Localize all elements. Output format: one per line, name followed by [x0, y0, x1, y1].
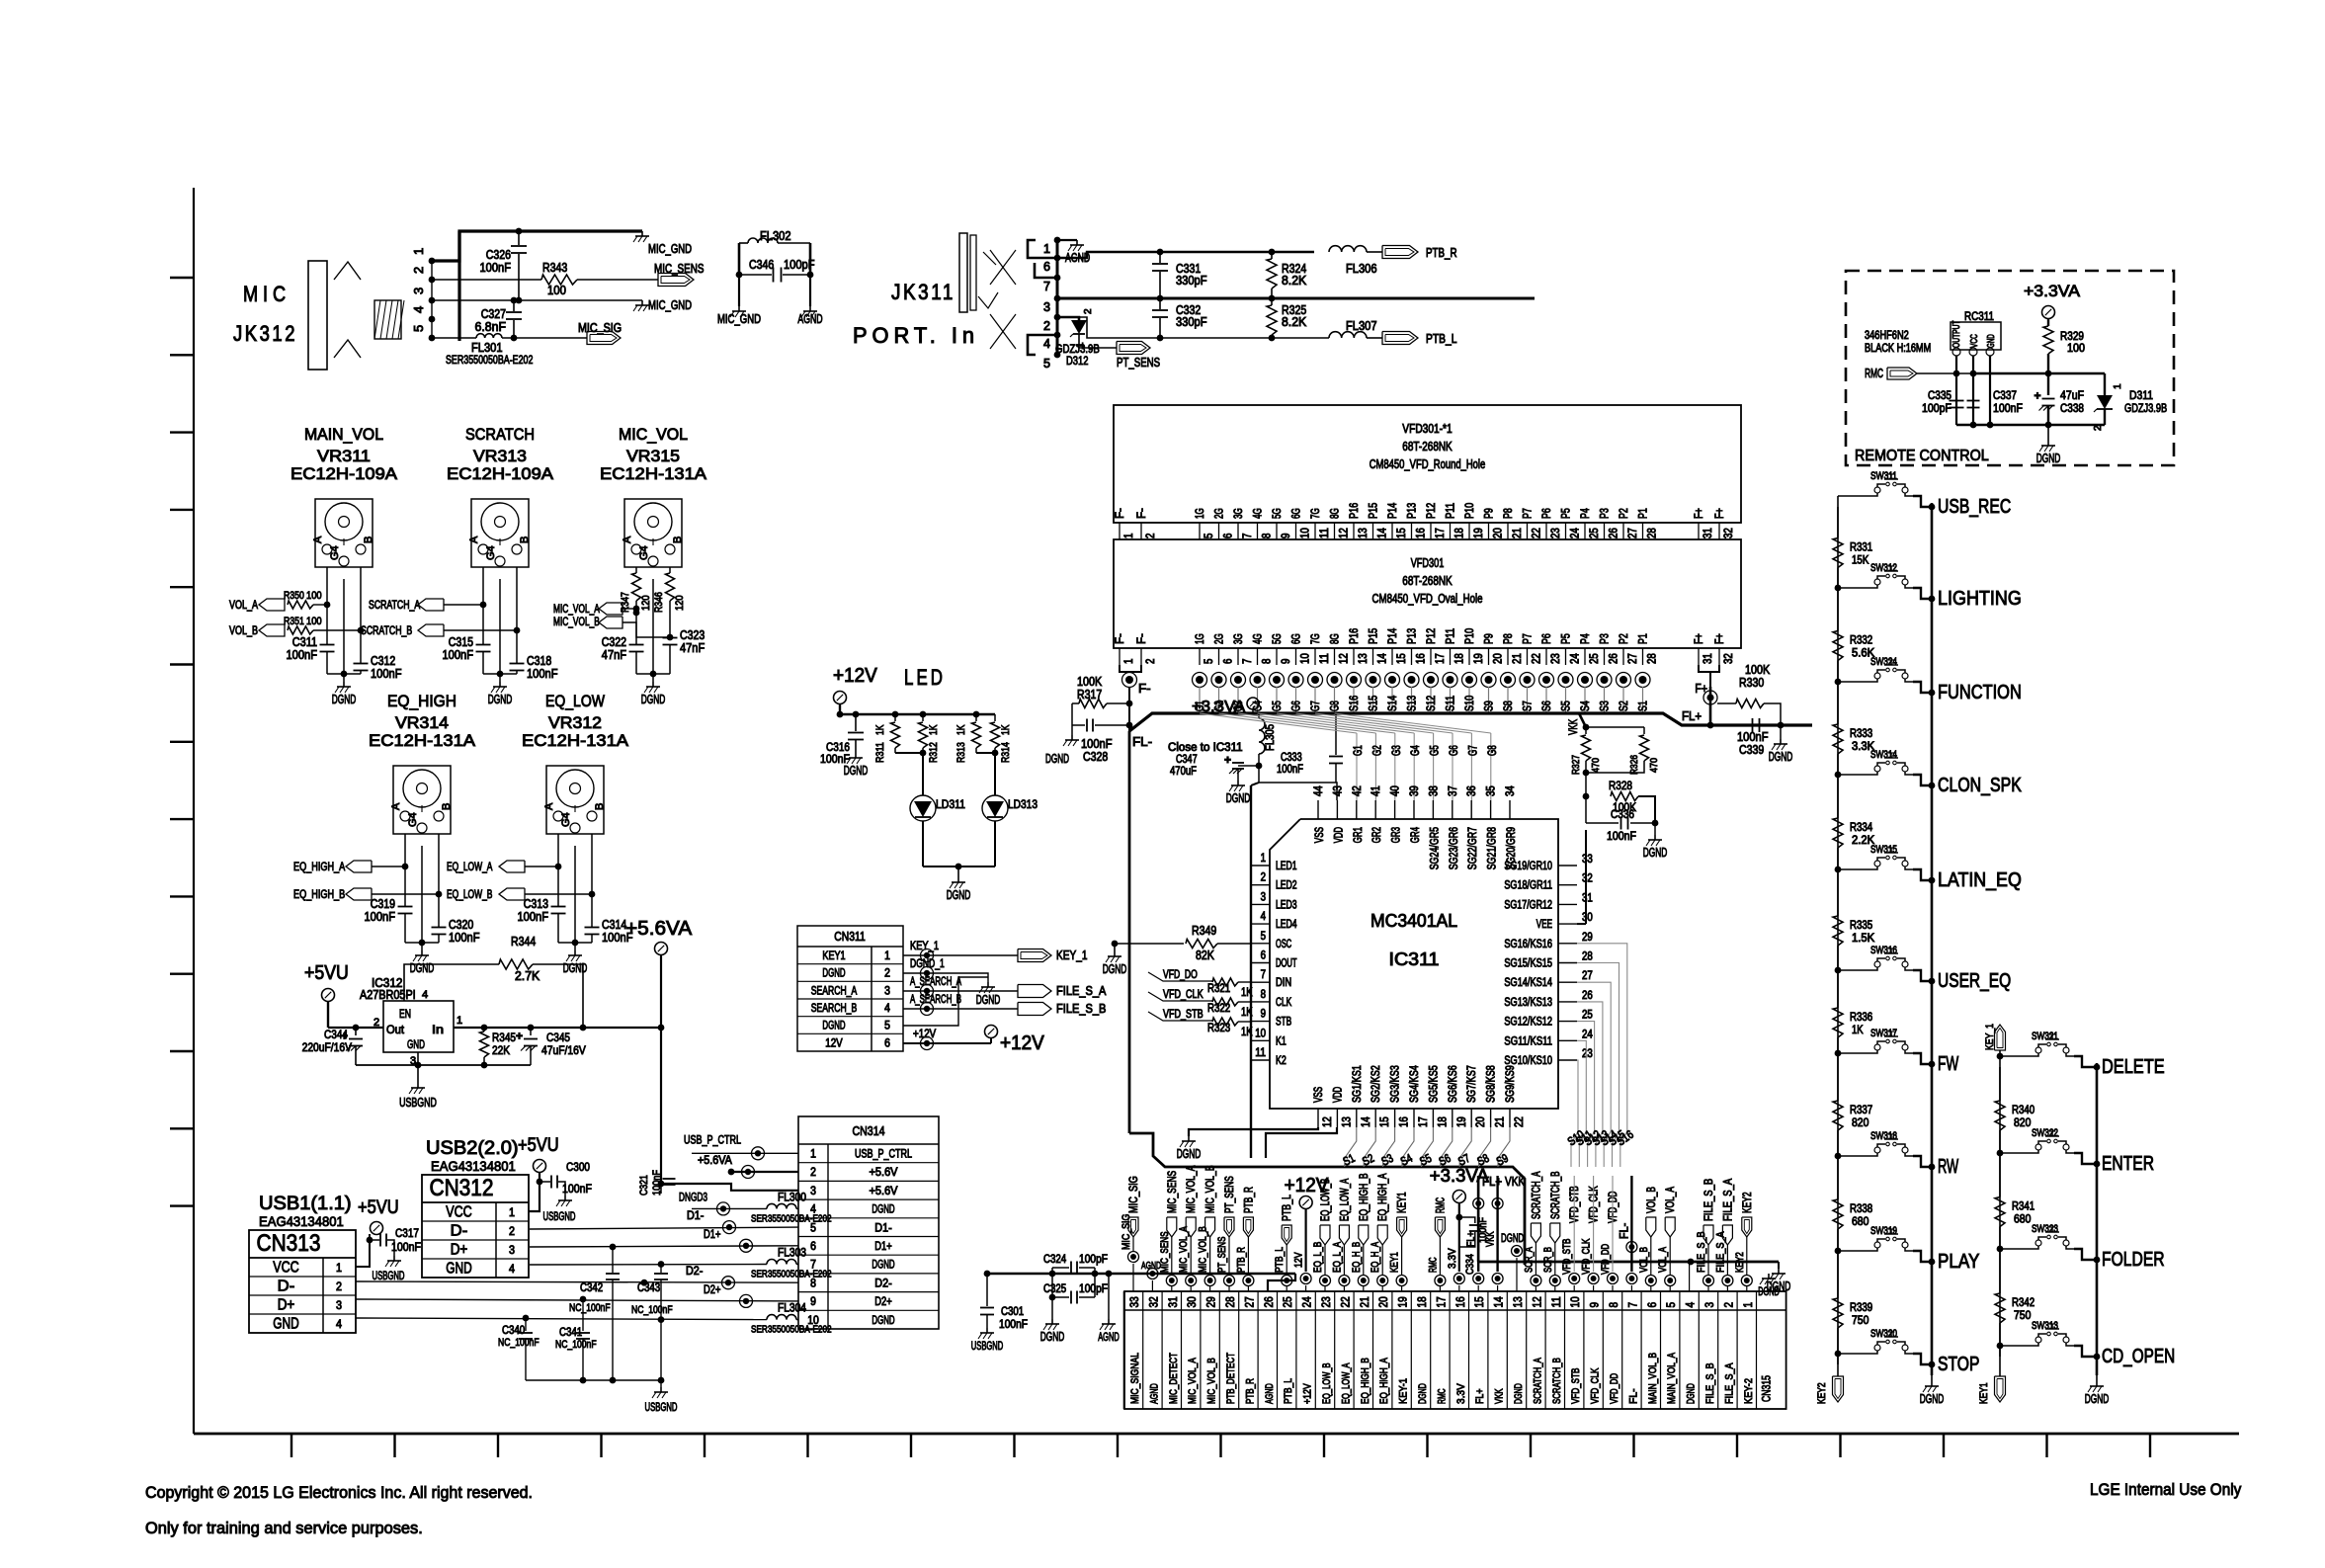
svg-text:28: 28 [1223, 1296, 1237, 1307]
ferrite bead FL300 [767, 1203, 796, 1208]
svg-text:SG15/KS15: SG15/KS15 [1504, 958, 1552, 970]
REMOTE CONTROL dashed box [1846, 271, 2174, 465]
capacitor C322 [629, 644, 644, 646]
svg-text:15: 15 [1472, 1296, 1486, 1307]
svg-text:16: 16 [1416, 653, 1428, 664]
svg-text:DGND: DGND [2085, 1392, 2110, 1406]
svg-text:G4: G4 [638, 545, 650, 560]
svg-text:P12: P12 [1426, 628, 1438, 644]
svg-text:VEE: VEE [1536, 919, 1552, 931]
capacitor C318 [510, 663, 525, 665]
svg-text:G3: G3 [1391, 745, 1403, 756]
capacitor C326 [518, 231, 520, 245]
wire pin3 to mid gnd [459, 299, 642, 301]
svg-text:+5.6V: +5.6V [870, 1186, 898, 1197]
resistor R333 3.3K [1833, 724, 1843, 754]
svg-text:1: 1 [2113, 383, 2123, 389]
key ladder buses [1837, 496, 1839, 1373]
svg-text:FL-: FL- [1619, 1223, 1630, 1239]
svg-text:K2: K2 [1276, 1055, 1287, 1067]
resistor R331 15K [1833, 538, 1843, 568]
svg-text:27: 27 [1242, 1296, 1256, 1307]
svg-text:5: 5 [1204, 534, 1215, 538]
svg-text:VCC: VCC [1969, 334, 1980, 348]
svg-text:VOL_B: VOL_B [229, 625, 258, 637]
svg-text:68T-268NK: 68T-268NK [1402, 440, 1453, 454]
wire D2+ [356, 1299, 798, 1301]
pin 7 [1054, 275, 1061, 282]
wire EN pullup R344 [404, 964, 499, 1001]
svg-text:100nF: 100nF [391, 1240, 421, 1254]
svg-text:100: 100 [306, 616, 322, 627]
svg-text:KEY1: KEY1 [1397, 1192, 1409, 1213]
wire F+ down to rail [1709, 687, 1712, 725]
svg-text:MIC_VOL_B: MIC_VOL_B [1198, 1226, 1209, 1273]
svg-text:25: 25 [1589, 653, 1601, 664]
pin bus JK311 [1056, 240, 1059, 355]
testpoint DNGD3 FL300 [692, 1207, 767, 1209]
flag EQ_HIGH_A [346, 861, 372, 872]
svg-text:EQ_LOW_B: EQ_LOW_B [1321, 1362, 1333, 1404]
svg-text:FL300: FL300 [778, 1192, 806, 1203]
svg-text:4G: 4G [1253, 508, 1265, 519]
svg-text:P7: P7 [1523, 633, 1535, 644]
resistor R349 82K [1115, 943, 1184, 945]
svg-text:FILE_S_A: FILE_S_A [1714, 1231, 1726, 1273]
svg-text:GND: GND [1986, 334, 1997, 348]
ferrite bead FL306 [1329, 246, 1367, 252]
svg-text:SG5/KS5: SG5/KS5 [1428, 1065, 1440, 1103]
svg-text:JK311: JK311 [891, 280, 955, 304]
svg-text:9: 9 [1588, 1302, 1602, 1308]
svg-text:SCRATCH_A: SCRATCH_A [1531, 1171, 1542, 1219]
svg-text:47nF: 47nF [680, 641, 706, 655]
svg-text:26: 26 [1609, 653, 1620, 664]
svg-text:NC_100nF: NC_100nF [555, 1339, 597, 1351]
testpoint USB_P_CTRL [692, 1152, 798, 1154]
svg-text:NC_100nF: NC_100nF [498, 1337, 540, 1349]
svg-text:S16: S16 [1349, 696, 1361, 711]
cap join wire [405, 942, 439, 944]
pin 1 [429, 258, 436, 265]
svg-text:VSS: VSS [1313, 1087, 1325, 1103]
svg-text:20: 20 [1493, 653, 1505, 664]
svg-text:25: 25 [1582, 1010, 1593, 1022]
svg-text:C334: C334 [1464, 1254, 1476, 1275]
svg-text:S4: S4 [1580, 701, 1592, 711]
svg-text:2: 2 [810, 1167, 816, 1179]
svg-text:DGND: DGND [1758, 1286, 1780, 1298]
svg-text:21: 21 [1512, 653, 1524, 664]
ground DGND right of CN315 [1768, 1274, 1770, 1279]
svg-text:USB1(1.1): USB1(1.1) [259, 1194, 352, 1214]
svg-text:MIC_VOL_A: MIC_VOL_A [1178, 1226, 1190, 1273]
svg-text:100nF: 100nF [1081, 737, 1113, 751]
svg-text:D-: D- [451, 1223, 468, 1240]
svg-text:G7: G7 [1310, 701, 1322, 711]
svg-text:P10: P10 [1464, 628, 1476, 644]
svg-text:P8: P8 [1503, 508, 1515, 519]
svg-text:9: 9 [1281, 534, 1292, 538]
svg-text:G4: G4 [329, 545, 341, 560]
svg-text:EC12H-109A: EC12H-109A [447, 464, 554, 483]
svg-text:C315: C315 [449, 635, 473, 649]
svg-text:PORT. In: PORT. In [853, 323, 979, 348]
svg-text:D312: D312 [1066, 354, 1089, 368]
svg-text:G8: G8 [1330, 701, 1342, 711]
flag PT_SENS [1079, 347, 1117, 349]
svg-text:D+: D+ [451, 1242, 468, 1259]
IC311 top pins [1317, 800, 1319, 819]
svg-text:33: 33 [1582, 854, 1593, 866]
svg-text:SG18/GR11: SG18/GR11 [1504, 880, 1552, 892]
svg-text:FL-: FL- [1132, 735, 1152, 749]
pin 2 [429, 277, 436, 284]
svg-text:In: In [432, 1023, 444, 1036]
wire Out +5VU [328, 1027, 383, 1029]
svg-text:R314: R314 [1000, 742, 1012, 763]
frame tick marks bottom [291, 1434, 2150, 1457]
svg-text:SW324: SW324 [1870, 656, 1897, 668]
resistor R314 [994, 714, 996, 721]
svg-text:R327: R327 [1570, 755, 1582, 775]
svg-text:1: 1 [1123, 534, 1135, 538]
svg-text:19: 19 [1396, 1296, 1410, 1307]
svg-text:EQ_HIGH_B: EQ_HIGH_B [1359, 1173, 1370, 1221]
svg-text:11: 11 [1549, 1296, 1563, 1307]
svg-text:3: 3 [336, 1298, 342, 1312]
svg-text:P1: P1 [1638, 508, 1650, 519]
svg-text:26: 26 [1609, 528, 1620, 538]
svg-text:19: 19 [1456, 1116, 1468, 1127]
svg-text:39: 39 [1409, 785, 1421, 796]
svg-text:P10: P10 [1464, 503, 1476, 519]
svg-text:15: 15 [1379, 1116, 1391, 1127]
svg-text:MIC: MIC [243, 282, 291, 306]
flag VOL_A [259, 599, 285, 611]
svg-text:EC12H-109A: EC12H-109A [291, 464, 398, 483]
svg-text:DGND: DGND [1920, 1392, 1945, 1406]
svg-text:330pF: 330pF [1176, 274, 1207, 288]
wire D2- [356, 1281, 798, 1282]
svg-text:P4: P4 [1580, 633, 1592, 644]
svg-text:B: B [519, 536, 531, 543]
svg-text:SW322: SW322 [2032, 1127, 2058, 1139]
svg-text:VFD_STB: VFD_STB [1561, 1239, 1573, 1275]
svg-text:G2: G2 [1371, 745, 1383, 756]
svg-text:EQ_L_A: EQ_L_A [1331, 1241, 1343, 1273]
capacitor C334 [1459, 1217, 1475, 1223]
svg-text:S14: S14 [1387, 695, 1399, 711]
svg-text:SG22/GR7: SG22/GR7 [1467, 827, 1479, 869]
pad F+ join [1699, 665, 1710, 691]
wire F- down [1128, 687, 1130, 731]
resistor R311 [894, 714, 896, 721]
svg-text:D2-: D2- [686, 1266, 704, 1278]
wire pin1 to top bus [432, 231, 642, 261]
net S1-S9 wires [1345, 1127, 1357, 1167]
svg-text:R323: R323 [1207, 1023, 1230, 1034]
svg-text:27: 27 [1582, 970, 1593, 982]
svg-text:A: A [468, 536, 480, 543]
svg-text:LED1: LED1 [1276, 861, 1297, 872]
testpoint A_SEARCH_B [903, 1008, 1018, 1010]
resistor R340 820 [1995, 1101, 2005, 1130]
svg-text:1: 1 [411, 248, 426, 255]
ground MIC_GND [738, 306, 740, 311]
svg-text:P13: P13 [1407, 628, 1419, 644]
svg-text:C341: C341 [559, 1327, 582, 1339]
ground USBGND caps [660, 1380, 662, 1387]
svg-text:MIC_SIG: MIC_SIG [1121, 1214, 1132, 1250]
svg-text:F+: F+ [1714, 508, 1726, 519]
svg-text:C347: C347 [1176, 754, 1198, 766]
svg-text:C312: C312 [371, 654, 395, 668]
svg-text:D311: D311 [2129, 388, 2153, 402]
svg-text:MAIN_VOL: MAIN_VOL [304, 425, 383, 444]
svg-text:P4: P4 [1580, 508, 1592, 519]
svg-text:+12V: +12V [1302, 1383, 1314, 1404]
svg-text:G7: G7 [1467, 745, 1479, 756]
svg-text:K1: K1 [1276, 1035, 1287, 1047]
connector CN315 table [1124, 1291, 1786, 1409]
svg-text:P3: P3 [1600, 508, 1612, 519]
svg-text:18: 18 [1454, 653, 1466, 664]
svg-text:P3: P3 [1600, 633, 1612, 644]
svg-text:R331: R331 [1850, 542, 1872, 554]
svg-text:1: 1 [336, 1261, 342, 1275]
svg-text:CLK: CLK [1276, 997, 1291, 1009]
svg-text:8: 8 [1261, 989, 1266, 1001]
svg-text:GR2: GR2 [1371, 827, 1383, 843]
svg-text:DGND: DGND [1769, 750, 1793, 764]
svg-text:RMC: RMC [1427, 1257, 1439, 1273]
svg-text:+5.6VA: +5.6VA [625, 918, 693, 940]
svg-text:SCRATCH_A: SCRATCH_A [1532, 1358, 1543, 1404]
svg-text:4: 4 [1043, 337, 1050, 351]
svg-text:DGND: DGND [1501, 1233, 1524, 1245]
svg-text:LED4: LED4 [1276, 919, 1297, 931]
svg-text:S2: S2 [1619, 701, 1630, 711]
svg-text:VFD_STB: VFD_STB [1570, 1368, 1582, 1404]
svg-text:C337: C337 [1993, 388, 2017, 402]
wire GND rail IC312 [417, 1052, 419, 1065]
svg-text:SW320: SW320 [1870, 1328, 1897, 1340]
capacitor C342 [612, 1247, 614, 1273]
svg-text:Copyright © 2015 LG Electronic: Copyright © 2015 LG Electronics Inc. All… [145, 1483, 533, 1502]
svg-text:C338: C338 [2060, 401, 2084, 415]
svg-text:C342: C342 [580, 1282, 603, 1294]
svg-text:C319: C319 [371, 897, 395, 911]
svg-text:VFD301-*1: VFD301-*1 [1402, 422, 1452, 436]
svg-text:8G: 8G [1330, 508, 1342, 519]
svg-text:14: 14 [1377, 653, 1389, 664]
svg-text:FOLDER: FOLDER [2102, 1249, 2165, 1271]
svg-text:6: 6 [1645, 1302, 1659, 1308]
svg-text:P6: P6 [1541, 633, 1553, 644]
svg-text:S1: S1 [1638, 701, 1650, 711]
svg-text:VDD: VDD [1332, 1087, 1344, 1103]
wire VSS DGND [1189, 1127, 1318, 1136]
svg-text:C323: C323 [680, 628, 705, 642]
svg-text:DGND: DGND [332, 693, 357, 706]
svg-text:13: 13 [1358, 653, 1370, 664]
svg-text:R341: R341 [2012, 1201, 2034, 1213]
ground DGND remote [2047, 425, 2049, 441]
svg-text:8G: 8G [1330, 633, 1342, 644]
svg-text:6G: 6G [1291, 633, 1303, 644]
svg-text:CN313: CN313 [257, 1230, 321, 1257]
svg-text:DNGD3: DNGD3 [679, 1192, 707, 1203]
svg-text:C328: C328 [1083, 750, 1108, 764]
svg-text:AGND: AGND [1264, 1383, 1276, 1404]
svg-text:FILE_S_B: FILE_S_B [1703, 1179, 1715, 1221]
svg-text:SG7/KS7: SG7/KS7 [1466, 1065, 1478, 1103]
svg-text:346HF6N2: 346HF6N2 [1865, 330, 1909, 342]
resistor R345 [483, 1028, 485, 1032]
svg-text:100nF: 100nF [562, 1182, 592, 1196]
wire VDD feed [1259, 783, 1337, 800]
svg-text:SCRATCH_B: SCRATCH_B [1551, 1358, 1563, 1404]
svg-text:F-: F- [1136, 633, 1148, 644]
svg-text:C322: C322 [602, 635, 626, 649]
svg-text:37: 37 [1448, 785, 1459, 796]
svg-text:SG11/KS11: SG11/KS11 [1504, 1035, 1552, 1047]
svg-text:S15: S15 [1369, 696, 1380, 711]
svg-text:SG12/KS12: SG12/KS12 [1504, 1017, 1552, 1029]
svg-text:FL304: FL304 [778, 1303, 807, 1315]
svg-text:100pF: 100pF [1922, 401, 1951, 415]
svg-text:100nF: 100nF [371, 667, 402, 681]
pin 5 [429, 335, 436, 342]
svg-text:S3: S3 [1600, 701, 1612, 711]
capacitor C314 [585, 927, 600, 929]
svg-text:4: 4 [336, 1317, 342, 1331]
svg-text:BLACK H:16MM: BLACK H:16MM [1865, 343, 1931, 355]
svg-text:MIC_VOL_B: MIC_VOL_B [553, 617, 600, 628]
svg-text:R330: R330 [1739, 676, 1764, 690]
jack contact V bottom [334, 340, 361, 358]
display VFD301-#1 68T-268NK [1114, 405, 1741, 523]
svg-text:PTB_L: PTB_L [1426, 332, 1457, 346]
svg-text:100nF: 100nF [1737, 730, 1769, 744]
svg-text:R311: R311 [874, 742, 886, 763]
LED LD313 [982, 795, 1008, 821]
svg-text:2: 2 [1145, 659, 1157, 664]
flag KEY2 ladder [1837, 1373, 1839, 1376]
flag EQ_HIGH_B [346, 888, 372, 900]
ground DGND C328 [1071, 725, 1073, 735]
svg-text:EQ_LOW_B: EQ_LOW_B [1320, 1179, 1332, 1221]
svg-text:25: 25 [1281, 1296, 1294, 1307]
wire VOL_B to VR311 B [313, 629, 361, 631]
svg-text:10: 10 [1255, 1028, 1266, 1039]
svg-text:PTB_L: PTB_L [1282, 1195, 1293, 1221]
svg-text:2G: 2G [1214, 508, 1226, 519]
svg-text:S6: S6 [1541, 701, 1553, 711]
svg-text:5: 5 [1261, 931, 1266, 943]
svg-text:DGND: DGND [410, 961, 435, 975]
svg-text:3: 3 [810, 1186, 816, 1197]
svg-text:+5.6V: +5.6V [870, 1167, 898, 1179]
svg-text:3: 3 [884, 985, 890, 997]
svg-text:26: 26 [1262, 1296, 1276, 1307]
ground MIC_GND mid [641, 300, 643, 305]
display VFD301 68T-268NK [1114, 539, 1741, 648]
svg-text:27: 27 [1627, 653, 1639, 664]
svg-text:12: 12 [1530, 1296, 1543, 1307]
svg-text:100nF: 100nF [518, 910, 549, 924]
capacitor C313 [551, 906, 566, 908]
svg-text:CD_OPEN: CD_OPEN [2102, 1346, 2175, 1367]
svg-text:PT_SENS: PT_SENS [1224, 1176, 1236, 1213]
svg-text:120: 120 [640, 595, 652, 611]
svg-text:4: 4 [884, 1003, 890, 1015]
svg-text:R335: R335 [1850, 920, 1872, 932]
svg-text:VFD_CLK: VFD_CLK [1590, 1367, 1602, 1404]
svg-text:42: 42 [1352, 785, 1364, 796]
svg-text:22K: 22K [492, 1043, 510, 1057]
svg-text:EQ_L_B: EQ_L_B [1312, 1242, 1324, 1273]
svg-text:STB: STB [1276, 1017, 1291, 1029]
svg-text:DGND: DGND [1040, 1330, 1065, 1344]
svg-text:SEARCH_B: SEARCH_B [811, 1003, 858, 1015]
svg-text:FILE_S_A: FILE_S_A [1722, 1179, 1734, 1221]
svg-text:USBGND: USBGND [971, 1341, 1003, 1353]
svg-text:SCRATCH_B: SCRATCH_B [1550, 1171, 1562, 1219]
svg-text:EQ_LOW_A: EQ_LOW_A [1340, 1362, 1352, 1404]
svg-text:24: 24 [1300, 1296, 1314, 1307]
svg-text:SG1/KS1: SG1/KS1 [1352, 1065, 1364, 1103]
wire VDD bottom [1266, 1127, 1337, 1158]
flag FILE_S_A [1018, 985, 1051, 998]
resistor R344 [499, 959, 533, 969]
svg-text:470uF: 470uF [1170, 766, 1197, 778]
svg-text:6: 6 [1043, 260, 1050, 274]
svg-text:14: 14 [1361, 1116, 1372, 1127]
svg-text:5G: 5G [1272, 633, 1284, 644]
resistor R335 1.5K [1833, 916, 1843, 946]
svg-text:MAIN_VOL_A: MAIN_VOL_A [1666, 1353, 1678, 1404]
svg-text:2: 2 [2093, 425, 2104, 431]
svg-text:5G: 5G [1272, 508, 1284, 519]
svg-text:R333: R333 [1850, 728, 1872, 740]
svg-text:82K: 82K [1196, 949, 1214, 962]
bus AGND strip [987, 1273, 1295, 1276]
svg-text:47uF: 47uF [2060, 388, 2084, 402]
svg-text:5: 5 [1043, 357, 1050, 371]
svg-text:3: 3 [1261, 891, 1266, 903]
wire mid common [1057, 297, 1535, 300]
svg-text:VFD_CLK: VFD_CLK [1163, 989, 1204, 1001]
svg-text:35: 35 [1486, 785, 1498, 796]
svg-text:25: 25 [1589, 528, 1601, 538]
svg-text:P1: P1 [1638, 633, 1650, 644]
wire DGND drop harness [1778, 1262, 1780, 1269]
svg-text:FILE_S_B: FILE_S_B [1704, 1362, 1716, 1404]
svg-text:GND: GND [407, 1037, 425, 1051]
svg-text:820: 820 [2014, 1117, 2031, 1129]
connector CN314 table [798, 1116, 939, 1329]
svg-text:R339: R339 [1850, 1302, 1872, 1314]
svg-text:VOL_A: VOL_A [229, 600, 258, 612]
svg-text:P16: P16 [1349, 503, 1361, 519]
svg-text:DGND_1: DGND_1 [910, 958, 945, 970]
svg-text:F+: F+ [1694, 633, 1705, 644]
svg-text:D1+: D1+ [704, 1229, 721, 1241]
svg-text:19: 19 [1473, 653, 1485, 664]
svg-text:B: B [363, 536, 374, 543]
